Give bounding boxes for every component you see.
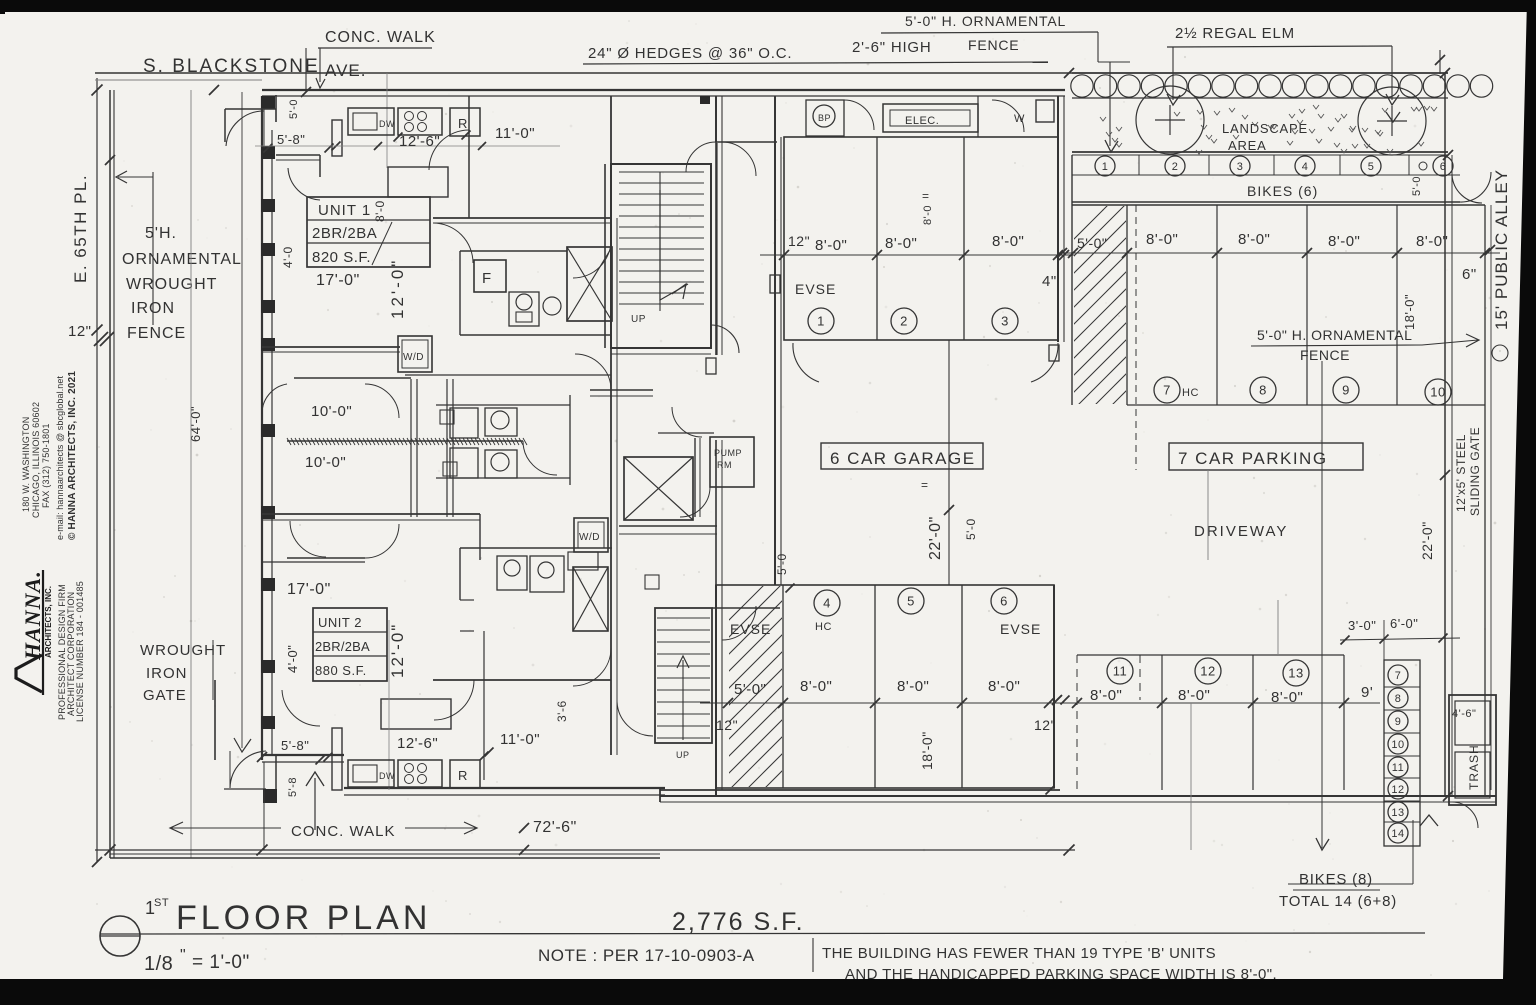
- svg-text:FAX (312) 750-1801: FAX (312) 750-1801: [41, 423, 51, 508]
- svg-text:ARCHITECTS, INC.: ARCHITECTS, INC.: [44, 586, 53, 658]
- svg-text:5'-0": 5'-0": [1077, 235, 1107, 251]
- svg-text:18'-0": 18'-0": [919, 731, 935, 770]
- svg-text:ORNAMENTAL: ORNAMENTAL: [122, 251, 242, 268]
- svg-text:8: 8: [1395, 693, 1402, 705]
- svg-text:8'-0": 8'-0": [1090, 687, 1122, 704]
- svg-text:FENCE: FENCE: [968, 37, 1019, 53]
- svg-text:880 S.F.: 880 S.F.: [315, 663, 367, 678]
- svg-text:4": 4": [1042, 273, 1057, 290]
- svg-text:10: 10: [1430, 385, 1445, 400]
- svg-text:S. BLACKSTONE: S. BLACKSTONE: [143, 56, 320, 77]
- svg-text:8'-0": 8'-0": [1271, 689, 1303, 706]
- svg-text:HANNA.: HANNA.: [20, 570, 45, 661]
- svg-text:5'-0: 5'-0: [288, 99, 300, 119]
- svg-text:CONC. WALK: CONC. WALK: [291, 823, 395, 840]
- svg-text:3: 3: [1237, 161, 1244, 173]
- svg-text:= 1'-0": = 1'-0": [192, 952, 250, 973]
- svg-text:3'-0": 3'-0": [1348, 618, 1376, 633]
- svg-text:10: 10: [1391, 739, 1404, 751]
- svg-text:8'-0: 8'-0: [373, 200, 387, 222]
- svg-text:17'-0": 17'-0": [316, 272, 360, 289]
- svg-text:2BR/2BA: 2BR/2BA: [312, 225, 377, 242]
- svg-text:17'-0": 17'-0": [287, 581, 331, 598]
- svg-text:8: 8: [1259, 383, 1267, 398]
- svg-text:9': 9': [1361, 684, 1373, 701]
- svg-text:1/8: 1/8: [144, 953, 173, 975]
- svg-text:9: 9: [1342, 383, 1350, 398]
- svg-text:THE BUILDING HAS FEWER THA: THE BUILDING HAS FEWER THAN 19 TYPE 'B' …: [822, 945, 1216, 962]
- svg-text:UNIT 1: UNIT 1: [318, 202, 371, 219]
- svg-text:7: 7: [1163, 383, 1171, 398]
- svg-text:UNIT 2: UNIT 2: [318, 615, 362, 630]
- svg-text:5'-0" H. ORNAMENTAL: 5'-0" H. ORNAMENTAL: [905, 13, 1066, 29]
- svg-text:BIKES (8): BIKES (8): [1299, 871, 1373, 888]
- svg-text:5: 5: [1368, 161, 1375, 173]
- svg-text:72'-6": 72'-6": [533, 819, 577, 836]
- svg-text:9: 9: [1395, 716, 1402, 728]
- svg-text:HC: HC: [1182, 387, 1199, 399]
- svg-text:SLIDING GATE: SLIDING GATE: [1468, 427, 1482, 516]
- svg-text:12: 12: [1200, 664, 1215, 679]
- svg-text:R: R: [458, 116, 468, 131]
- svg-text:R: R: [458, 768, 468, 783]
- svg-text:12'-6": 12'-6": [399, 133, 440, 150]
- svg-text:2½ REGAL ELM: 2½ REGAL ELM: [1175, 25, 1295, 42]
- svg-text:e-mail: hannaarchitects @ sbcg: e-mail: hannaarchitects @ sbcglobal.net: [55, 375, 65, 540]
- svg-text:W: W: [1014, 113, 1025, 125]
- svg-text:12": 12": [68, 323, 92, 340]
- svg-text:2: 2: [1172, 161, 1179, 173]
- svg-text:DW: DW: [379, 771, 395, 781]
- svg-text:RM: RM: [717, 460, 732, 470]
- svg-text:W/D: W/D: [403, 352, 424, 363]
- svg-text:10'-0": 10'-0": [311, 403, 352, 420]
- svg-text:UP: UP: [631, 314, 646, 325]
- svg-text:820 S.F.: 820 S.F.: [312, 249, 371, 266]
- svg-text:5'-0: 5'-0: [1411, 176, 1423, 196]
- svg-text:UP: UP: [676, 750, 690, 760]
- svg-text:EVSE: EVSE: [730, 621, 771, 637]
- svg-text:180 W. WASHINGTON: 180 W. WASHINGTON: [21, 417, 31, 512]
- svg-text:4'-0: 4'-0: [281, 246, 295, 268]
- svg-text:E. 65TH PL.: E. 65TH PL.: [71, 174, 90, 283]
- svg-text:24" Ø HEDGES @ 36" O.C.: 24" Ø HEDGES @ 36" O.C.: [588, 45, 792, 62]
- svg-text:13: 13: [1391, 807, 1404, 819]
- svg-text:8'-0": 8'-0": [1178, 687, 1210, 704]
- svg-text:W/D: W/D: [579, 532, 600, 543]
- svg-text:5'-0": 5'-0": [734, 681, 766, 698]
- svg-text:4: 4: [1302, 161, 1309, 173]
- svg-text:5'-0: 5'-0: [775, 553, 789, 575]
- svg-text:5: 5: [907, 594, 915, 609]
- svg-text:GATE: GATE: [143, 687, 187, 704]
- svg-text:8'-0": 8'-0": [1328, 233, 1360, 250]
- svg-text:8'-0": 8'-0": [1416, 233, 1448, 250]
- svg-text:3: 3: [1001, 314, 1009, 329]
- svg-text:5'-0: 5'-0: [964, 518, 978, 540]
- svg-text:AVE.: AVE.: [325, 61, 366, 80]
- svg-text:=: =: [922, 189, 929, 203]
- svg-text:11'-0": 11'-0": [495, 125, 535, 142]
- svg-text:6 CAR GARAGE: 6 CAR GARAGE: [830, 449, 976, 468]
- svg-text:13: 13: [1288, 666, 1303, 681]
- svg-text:6": 6": [1462, 266, 1477, 283]
- svg-text:8'-0: 8'-0: [922, 205, 934, 225]
- svg-text:8'-0": 8'-0": [815, 237, 847, 254]
- svg-text:8'-0": 8'-0": [885, 235, 917, 252]
- svg-text:7 CAR PARKING: 7 CAR PARKING: [1178, 449, 1328, 468]
- svg-text:FENCE: FENCE: [127, 325, 186, 342]
- svg-text:5'-8: 5'-8: [287, 777, 299, 797]
- svg-text:FLOOR PLAN: FLOOR PLAN: [176, 899, 431, 937]
- svg-text:12'x5' STEEL: 12'x5' STEEL: [1454, 434, 1468, 512]
- svg-text:8'-0": 8'-0": [800, 678, 832, 695]
- svg-text:8'-0": 8'-0": [1238, 231, 1270, 248]
- svg-text:2,776 S.F.: 2,776 S.F.: [672, 908, 805, 936]
- svg-text:8'-0": 8'-0": [992, 233, 1024, 250]
- svg-text:2BR/2BA: 2BR/2BA: [315, 639, 370, 654]
- svg-text:TOTAL 14 (6+8): TOTAL 14 (6+8): [1279, 893, 1397, 910]
- svg-text:64'-0": 64'-0": [188, 406, 203, 442]
- svg-text:4'-6": 4'-6": [1452, 708, 1476, 720]
- svg-text:7: 7: [1395, 670, 1402, 682]
- svg-text:": ": [180, 947, 186, 964]
- svg-text:12": 12": [788, 233, 810, 249]
- svg-text:LICENSE NUMBER 184 - 001485: LICENSE NUMBER 184 - 001485: [75, 581, 85, 722]
- svg-text:6: 6: [1000, 594, 1008, 609]
- svg-text:5'-8": 5'-8": [277, 132, 305, 147]
- svg-text:=: =: [921, 478, 928, 492]
- svg-text:12'-0": 12'-0": [388, 258, 407, 319]
- svg-text:F: F: [482, 270, 492, 287]
- svg-text:BIKES (6): BIKES (6): [1247, 183, 1318, 199]
- svg-text:AREA: AREA: [1228, 138, 1267, 153]
- svg-text:ST: ST: [154, 897, 169, 909]
- svg-text:FENCE: FENCE: [1300, 347, 1350, 363]
- svg-text:14: 14: [1391, 828, 1404, 840]
- svg-text:8'-0": 8'-0": [897, 678, 929, 695]
- svg-text:8'-0": 8'-0": [988, 678, 1020, 695]
- svg-text:3'-6: 3'-6: [555, 700, 569, 722]
- svg-text:22'-0": 22'-0": [1419, 521, 1435, 560]
- svg-text:ELEC.: ELEC.: [905, 115, 939, 127]
- svg-text:12'-0": 12'-0": [388, 623, 407, 678]
- svg-text:NOTE : PER 17-10-0903-A: NOTE : PER 17-10-0903-A: [538, 946, 755, 965]
- svg-text:6'-0": 6'-0": [1390, 616, 1418, 631]
- svg-text:11: 11: [1392, 762, 1404, 774]
- svg-text:HC: HC: [815, 621, 832, 633]
- svg-text:CONC. WALK: CONC. WALK: [325, 29, 436, 46]
- svg-text:EVSE: EVSE: [1000, 621, 1041, 637]
- svg-text:5'H.: 5'H.: [145, 225, 177, 242]
- svg-text:CHICAGO, ILLINOIS 60602: CHICAGO, ILLINOIS 60602: [31, 402, 41, 518]
- svg-text:4'-0": 4'-0": [285, 645, 300, 673]
- svg-text:15' PUBLIC ALLEY: 15' PUBLIC ALLEY: [1492, 169, 1511, 330]
- svg-text:2'-6" HIGH: 2'-6" HIGH: [852, 39, 932, 56]
- svg-text:8'-0": 8'-0": [1146, 231, 1178, 248]
- svg-text:IRON: IRON: [146, 665, 188, 682]
- svg-text:5'-8": 5'-8": [281, 738, 309, 753]
- svg-text:TRASH: TRASH: [1467, 744, 1481, 790]
- svg-text:18'-0": 18'-0": [1402, 294, 1417, 330]
- svg-text:11: 11: [1113, 664, 1128, 679]
- svg-text:22'-0": 22'-0": [927, 516, 944, 560]
- svg-text:12": 12": [716, 717, 738, 733]
- svg-text:12'-6": 12'-6": [397, 735, 438, 752]
- svg-text:DW: DW: [379, 119, 395, 129]
- svg-text:11'-0": 11'-0": [500, 731, 540, 748]
- svg-text:WROUGHT: WROUGHT: [126, 276, 217, 293]
- svg-text:12": 12": [1034, 717, 1056, 733]
- svg-text:BP: BP: [818, 113, 831, 123]
- svg-text:PUMP: PUMP: [714, 448, 742, 458]
- svg-text:4: 4: [823, 596, 831, 611]
- svg-text:2: 2: [900, 314, 908, 329]
- svg-text:5'-0" H. ORNAMENTAL: 5'-0" H. ORNAMENTAL: [1257, 327, 1412, 343]
- svg-text:10'-0": 10'-0": [305, 454, 346, 471]
- svg-text:EVSE: EVSE: [795, 281, 836, 297]
- svg-text:© HANNA ARCHITECTS, INC. 2021: © HANNA ARCHITECTS, INC. 2021: [67, 371, 78, 540]
- svg-text:1: 1: [1102, 161, 1109, 173]
- svg-text:12: 12: [1391, 784, 1404, 796]
- svg-text:1: 1: [817, 314, 825, 329]
